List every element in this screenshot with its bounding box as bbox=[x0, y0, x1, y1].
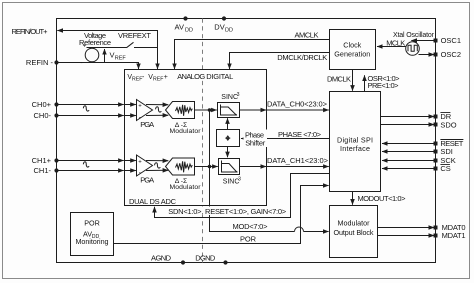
svg-text:SINC: SINC bbox=[223, 179, 240, 186]
svg-text:DMCLK/DRCLK: DMCLK/DRCLK bbox=[277, 53, 327, 62]
wire SDI bbox=[382, 151, 436, 153]
pin DVDD bbox=[222, 16, 226, 20]
svg-text:Digital SPI: Digital SPI bbox=[337, 135, 373, 144]
digital SPI interface box bbox=[330, 92, 381, 192]
pin CS bbox=[434, 167, 438, 171]
wires PGA1 to modulator bbox=[146, 160, 168, 162]
wire POR bbox=[114, 186, 329, 244]
label backdrop bbox=[167, 207, 288, 216]
svg-text:DATA_CH0<23:0>: DATA_CH0<23:0> bbox=[267, 100, 328, 109]
wire CH1- bbox=[57, 170, 124, 172]
svg-text:DUAL DS ADC: DUAL DS ADC bbox=[129, 197, 177, 206]
svg-text:CH1+: CH1+ bbox=[32, 156, 52, 165]
svg-text:DATA_CH1<23:0>: DATA_CH1<23:0> bbox=[267, 156, 329, 165]
svg-text:PGA: PGA bbox=[140, 175, 154, 184]
svg-text:DD: DD bbox=[185, 28, 193, 34]
svg-text:DD: DD bbox=[225, 28, 233, 34]
modulator output block bbox=[330, 206, 378, 258]
svg-text:MOD<7:0>: MOD<7:0> bbox=[233, 222, 269, 231]
svg-text:Generation: Generation bbox=[334, 49, 370, 58]
svg-text:Modulator: Modulator bbox=[170, 128, 202, 135]
wire MODOUT bbox=[352, 192, 354, 205]
wire DMCLK/DRCLK bbox=[230, 53, 330, 70]
pin SDI bbox=[434, 150, 438, 154]
svg-text:DMCLK: DMCLK bbox=[327, 74, 351, 83]
wire PHASE<7:0> bbox=[241, 138, 330, 140]
wire MDAT1 bbox=[378, 235, 435, 237]
wire REFIN/OUT+ to VREF+ bbox=[57, 31, 157, 48]
svg-text:MDAT1: MDAT1 bbox=[442, 231, 466, 240]
svg-text:Modulator: Modulator bbox=[338, 219, 371, 228]
svg-text:REFIN/OUT+: REFIN/OUT+ bbox=[12, 27, 49, 36]
svg-text:SINC: SINC bbox=[221, 94, 238, 101]
wire MDAT0 bbox=[378, 227, 435, 229]
svg-text:CS: CS bbox=[440, 164, 450, 173]
svg-text:AGND: AGND bbox=[151, 253, 172, 262]
svg-text:POR: POR bbox=[240, 235, 257, 244]
svg-text:ANALOG: ANALOG bbox=[177, 72, 205, 81]
wire DATA_CH0 bbox=[240, 109, 267, 111]
wire OSC1 bbox=[411, 40, 435, 42]
svg-text:MCLK: MCLK bbox=[386, 39, 405, 48]
svg-text:VREFEXT: VREFEXT bbox=[118, 31, 151, 40]
wire SDO bbox=[381, 124, 435, 126]
wire CH1+ bbox=[57, 160, 124, 162]
delta-sigma modulator U2 bbox=[166, 102, 195, 119]
wire DMCLK bbox=[352, 70, 354, 91]
svg-text:3: 3 bbox=[238, 177, 241, 183]
pin SCK bbox=[434, 159, 438, 163]
svg-text:Monitoring: Monitoring bbox=[76, 237, 109, 246]
pin OSC1 bbox=[434, 39, 438, 43]
pin OSC2 bbox=[434, 53, 438, 57]
label backdrop bbox=[176, 72, 235, 81]
svg-text:+: + bbox=[138, 104, 142, 110]
PGA U1 bbox=[137, 100, 153, 121]
pin AVDD bbox=[183, 16, 187, 20]
wires PGA0 to modulator bbox=[146, 104, 168, 106]
wire modulator0 to SINC0 bbox=[195, 109, 217, 111]
svg-text:REF: REF bbox=[153, 77, 163, 83]
pin DR bbox=[434, 115, 438, 119]
wire phase to SINC0 bbox=[227, 118, 229, 129]
svg-text:Output Block: Output Block bbox=[334, 228, 374, 237]
pin MDAT0 bbox=[434, 226, 438, 230]
svg-text:AMCLK: AMCLK bbox=[295, 31, 319, 40]
SINC3 filter CH1 bbox=[219, 159, 240, 175]
svg-text:+: + bbox=[83, 42, 87, 49]
svg-text:CH0-: CH0- bbox=[33, 111, 51, 120]
svg-text:REFIN -: REFIN - bbox=[26, 58, 54, 67]
svg-text:REF: REF bbox=[132, 77, 142, 83]
svg-text:MODOUT<1:0>: MODOUT<1:0> bbox=[358, 194, 407, 203]
wire DATA_CH1 bbox=[240, 166, 267, 168]
squiggle PGA0 out bbox=[156, 107, 162, 112]
svg-text:DGND: DGND bbox=[195, 253, 216, 262]
pin SDO bbox=[434, 123, 438, 127]
analog/digital divider (dashed) bbox=[202, 19, 204, 263]
squiggle CH1 input bbox=[83, 162, 89, 167]
phase shifter U3 bbox=[217, 130, 240, 147]
squiggle CH0 input bbox=[83, 106, 89, 111]
wire SDN/RESET/GAIN bbox=[155, 174, 330, 218]
svg-text:CH1-: CH1- bbox=[33, 166, 51, 175]
svg-text:PHASE <7:0>: PHASE <7:0> bbox=[278, 130, 322, 139]
svg-text:-: - bbox=[80, 60, 82, 67]
svg-text:DIGITAL: DIGITAL bbox=[206, 72, 233, 81]
svg-text:OSC2: OSC2 bbox=[441, 50, 461, 59]
wire AMCLK bbox=[175, 40, 330, 70]
wire modulator1 to SINC1 bbox=[195, 166, 218, 168]
wire RESET bbox=[382, 143, 436, 145]
pin RESET bbox=[434, 142, 438, 146]
svg-text:CH0+: CH0+ bbox=[32, 100, 52, 109]
wire REFIN- to VREF- bbox=[57, 63, 139, 70]
PGA U4 bbox=[137, 155, 153, 176]
svg-text:+: + bbox=[138, 159, 142, 165]
delta-sigma modulator U5 bbox=[166, 158, 195, 175]
svg-text:-: - bbox=[142, 74, 145, 81]
svg-text:Interface: Interface bbox=[340, 144, 370, 153]
svg-text:SDI: SDI bbox=[440, 147, 453, 156]
svg-text:POR: POR bbox=[84, 218, 100, 227]
arrow VREF bbox=[104, 49, 106, 62]
wire DR bbox=[381, 116, 435, 118]
wire SCK bbox=[382, 160, 436, 162]
svg-text:AV: AV bbox=[175, 23, 184, 32]
svg-text:OSC1: OSC1 bbox=[441, 36, 461, 45]
squiggle PGA1 out bbox=[155, 163, 161, 168]
wire CS bbox=[382, 168, 436, 170]
svg-text:V: V bbox=[110, 51, 115, 60]
wire MCLK bbox=[377, 46, 406, 48]
svg-text:SDN<1:0>, RESET<1:0>, GAIN<7:0: SDN<1:0>, RESET<1:0>, GAIN<7:0> bbox=[168, 207, 287, 216]
POR monitor box bbox=[71, 213, 114, 256]
svg-text:DV: DV bbox=[214, 23, 224, 32]
wire OSR/PRE bbox=[364, 75, 366, 91]
pin MDAT1 bbox=[434, 234, 438, 238]
label backdrop bbox=[244, 130, 268, 148]
svg-text:PRE<1:0>: PRE<1:0> bbox=[368, 81, 400, 90]
ADC block box bbox=[125, 70, 267, 206]
wire CH0+ bbox=[57, 104, 124, 106]
wire reference to switch bbox=[87, 47, 127, 49]
svg-text:REF: REF bbox=[115, 56, 127, 62]
junction node MOD tap CH1 bbox=[208, 165, 212, 169]
svg-text:Shifter: Shifter bbox=[245, 138, 266, 147]
wire phase to SINC1 bbox=[227, 147, 229, 158]
clock generation box bbox=[330, 30, 376, 70]
wire CH0- bbox=[57, 115, 124, 117]
junction node MOD tap CH0 bbox=[208, 108, 212, 112]
svg-text:3: 3 bbox=[237, 92, 240, 98]
svg-text:SDO: SDO bbox=[440, 120, 456, 129]
wire MOD<7:0> with hop bbox=[210, 110, 295, 232]
chip boundary box bbox=[57, 19, 436, 263]
wire OSC2 bbox=[419, 54, 435, 56]
svg-text:Clock: Clock bbox=[343, 41, 361, 50]
svg-text:Modulator: Modulator bbox=[170, 184, 202, 191]
svg-text:PGA: PGA bbox=[140, 120, 154, 129]
svg-text:+: + bbox=[164, 74, 168, 81]
